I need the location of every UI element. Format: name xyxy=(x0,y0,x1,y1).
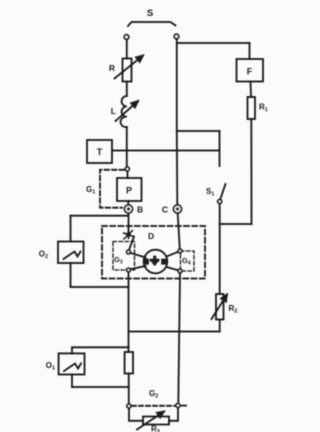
svg-text:R1: R1 xyxy=(259,103,268,114)
machine brushes xyxy=(143,259,149,265)
svg-text:T: T xyxy=(97,147,103,157)
box T xyxy=(87,140,112,163)
oscillograph O1 xyxy=(72,346,129,348)
wire S-right column down to C xyxy=(176,39,178,131)
oscillograph O2 xyxy=(58,242,84,264)
wire R1 down and left to S1 column xyxy=(250,119,252,224)
wire right column below D xyxy=(178,273,180,404)
dashed box G1 xyxy=(100,170,124,208)
svg-text:C: C xyxy=(162,205,168,215)
resistor R3 xyxy=(143,417,169,425)
dashed box G4 xyxy=(181,251,195,271)
switch S1 terminal xyxy=(218,200,222,204)
svg-text:O1: O1 xyxy=(46,361,55,372)
machine node left-bottom xyxy=(127,268,131,272)
dashed box G3 xyxy=(113,242,135,271)
machine leads xyxy=(130,253,145,258)
terminal C xyxy=(174,205,182,213)
svg-text:D: D xyxy=(148,231,154,241)
switch S left terminal xyxy=(124,35,129,40)
wire O2 bottom xyxy=(70,263,72,287)
node G2 right xyxy=(176,404,180,408)
box P xyxy=(117,178,142,201)
machine node left-top xyxy=(127,250,131,254)
svg-text:B: B xyxy=(137,205,143,215)
wire branch to F xyxy=(177,42,250,44)
wire left column below D xyxy=(128,272,130,352)
wire R2 bottom to left column xyxy=(219,320,221,332)
svg-text:P: P xyxy=(126,186,132,196)
wire B down to K xyxy=(128,213,130,233)
arrow through R xyxy=(115,56,144,79)
machine commutator cross xyxy=(150,256,160,266)
inductor L xyxy=(121,96,127,127)
terminal B xyxy=(125,205,133,213)
svg-text:S: S xyxy=(147,8,153,19)
switch K blade xyxy=(129,237,134,251)
dashed box D xyxy=(102,226,205,279)
box F xyxy=(237,59,264,82)
wire T to S1 column xyxy=(112,150,220,152)
wire F to R1 xyxy=(250,82,253,98)
svg-text:F: F xyxy=(247,67,253,77)
switch S1 blade xyxy=(220,184,225,200)
switch S right terminal xyxy=(174,34,179,39)
svg-text:G2: G2 xyxy=(149,389,158,400)
wire node to R3 left xyxy=(129,408,143,421)
contact K xyxy=(124,230,134,239)
switch S blade xyxy=(128,22,176,26)
resistor R xyxy=(123,59,132,82)
wire C to right-top node xyxy=(178,213,180,249)
wire resistor to node xyxy=(128,374,130,405)
wire node to R3 right xyxy=(169,408,178,421)
resistor (unlabeled) xyxy=(125,352,133,374)
wire S-left to R xyxy=(126,40,128,59)
resistor R1 xyxy=(248,97,256,119)
machine node right-top xyxy=(178,249,182,253)
svg-text:R3: R3 xyxy=(151,425,160,432)
node G2 left xyxy=(127,404,131,408)
machine M outer xyxy=(144,250,168,274)
resistor R2 xyxy=(216,294,224,320)
svg-text:R: R xyxy=(109,63,115,73)
machine node right-bottom xyxy=(178,269,182,273)
svg-text:S1: S1 xyxy=(206,187,214,198)
wire L to node xyxy=(126,127,128,167)
wire S1 down xyxy=(219,204,221,295)
wire P to B xyxy=(127,201,129,205)
svg-text:G4: G4 xyxy=(182,256,191,267)
wire R to L xyxy=(126,82,128,97)
svg-text:G3: G3 xyxy=(114,255,123,266)
svg-text:R2: R2 xyxy=(229,304,238,315)
svg-text:O2: O2 xyxy=(39,250,48,261)
wire B branch to O2 top xyxy=(71,215,129,217)
wire branch x220 xyxy=(177,130,220,132)
node small circle above P xyxy=(125,167,129,171)
arrow through L xyxy=(116,101,139,121)
wire node to P xyxy=(127,171,129,178)
dashed line G2 xyxy=(132,405,175,407)
svg-text:G1: G1 xyxy=(86,185,95,196)
svg-text:L: L xyxy=(111,106,116,116)
